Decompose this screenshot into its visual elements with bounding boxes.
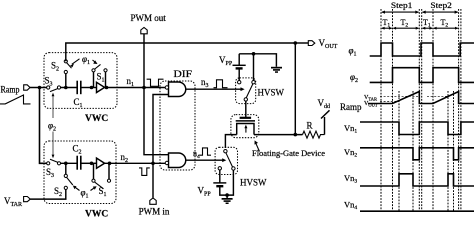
pulse glyph n1 [147,79,164,86]
phi2 control line with arrows [48,93,56,159]
wire V_OUT vertical [294,43,296,135]
wire n2 up to upper gate [153,95,169,164]
wire S2 to V_TAR [30,190,66,200]
AND gate lower (n4) [165,153,186,168]
Ramp input label [1,85,20,95]
pulse glyph n4 [200,148,212,155]
annotation arrow to FG box [255,140,260,151]
svg-text:Floating-Gate Device: Floating-Gate Device [252,148,325,158]
Vn3 waveform label [344,173,357,185]
switch S3 upper [45,76,61,92]
wire n4 output [186,159,223,161]
ramp waveform glyph [0,95,31,104]
PWM out terminal [131,13,167,34]
svg-text:HVSW: HVSW [258,88,285,98]
wire battery to gnd node [220,170,234,195]
phi2 waveform label [350,72,358,84]
VWC upper box [44,53,117,109]
Vn4 waveform label [344,200,357,212]
svg-text:Step2: Step2 [430,0,452,10]
svg-text:Step1: Step1 [391,0,413,10]
resistor R [303,121,325,139]
capacitor C2 [73,144,82,170]
phi1 waveform label [349,46,357,58]
wire ramp down to lower VWC [40,88,49,164]
wire C2 to buffer [81,162,97,164]
capacitor C1 [74,81,83,109]
Vn3 waveform [360,174,474,186]
Vn1 waveform label [344,123,357,135]
node HVSW1 gnd junction [252,52,256,56]
node n2 junction [151,162,155,166]
svg-text:Ramp: Ramp [340,102,362,112]
V_OUT label [319,38,338,50]
op-amp buffer lower [97,158,105,168]
node V_OUT junction [294,41,298,45]
wire FG source to HVSW2 [225,135,236,148]
Step1 label [391,0,413,10]
timing grid minor dashed lines [399,91,454,211]
wire S3 to C2 [61,162,77,164]
switch HVSW2 [218,150,235,171]
node buffer input lower [90,162,94,166]
DIF label [174,69,193,79]
Step1 arrow [381,11,419,14]
node buffer input upper [90,86,94,90]
DIF box [160,81,195,170]
wire n1 down to lower gate [144,88,169,155]
wire Ramp to S3 [30,87,48,89]
switch S1 upper [92,64,107,87]
Vn2 waveform [360,148,474,160]
HVSW lower box [215,147,237,174]
switch HVSW1 [238,81,256,102]
svg-text:VWC: VWC [85,114,108,124]
pulse glyph n2 [139,168,150,176]
switch S2 lower [54,163,73,198]
HVSW upper label [258,88,285,98]
node S2 tap lower [64,162,68,166]
node n4 label [193,149,200,160]
T1 T2 labels row [383,18,449,29]
wire V_OUT stub [295,42,308,44]
wire PWM out down to n1 [143,34,145,88]
Ramp waveform [368,92,474,104]
wire n3 output [186,88,243,90]
Vn1 waveform [360,122,474,135]
HVSW upper box [236,78,256,104]
V_TAR terminal [24,197,31,202]
node buffer output lower [108,162,112,166]
wire S3 to C1 [61,87,77,89]
node S2 tap upper [64,86,68,90]
phi1 waveform [370,43,474,56]
svg-text:R: R [307,121,313,131]
wire junction down to switch [253,54,255,81]
ground lower [222,198,233,204]
Step2 label [430,0,452,10]
node n1 label [127,76,135,88]
svg-text:HVSW: HVSW [240,178,267,188]
V_dd supply [318,98,331,135]
node ramp junction [38,86,42,90]
VWC lower label [85,210,108,220]
Ramp waveform label [340,102,362,112]
wire HVSW1 to floating gate [245,101,247,117]
PWM in terminal [139,198,170,217]
node n2 label [121,152,129,164]
phi1 label lower with arrows [73,186,97,200]
wire down to ground [226,195,228,198]
AND gate upper (n3) [165,82,186,97]
V_OUT level label [364,101,378,108]
wire FG drain to output node [254,134,303,136]
V_TAR label [4,196,22,208]
node HVSW2 gnd junction [225,193,229,197]
op-amp buffer upper [97,82,105,92]
phi2 waveform [370,68,474,83]
V_OUT terminal [308,41,315,46]
wire n1 rail [105,87,166,89]
battery V_PP upper [219,54,246,81]
Floating-Gate Device box [231,115,259,138]
svg-text:PWM out: PWM out [131,13,167,23]
Vn4 waveform [360,210,474,212]
Vn2 waveform label [344,147,357,159]
phi1 label upper with arrows [70,54,98,67]
VWC lower box [44,141,116,204]
VWC upper label [85,114,108,124]
wire n2 rail into gate [105,162,166,164]
wire C1 to buffer [81,87,97,89]
wire battery-ground rail [239,54,276,67]
V_OUT dashed level [380,100,399,102]
arrowhead n4 into HVSW [222,158,226,162]
switch S3 lower [46,159,61,179]
svg-text:PWM in: PWM in [139,207,170,217]
ground upper [271,67,282,73]
svg-text:VWC: VWC [85,210,108,219]
node buffer output upper [105,86,109,90]
timing grid major dashed lines [381,9,461,211]
arrowhead n3 into HVSW [241,87,245,91]
node output junction [294,133,298,137]
HVSW lower label [240,178,267,188]
svg-text:DIF: DIF [174,69,193,79]
switch S2 upper [51,60,72,86]
Step2 arrow [422,11,459,14]
Ramp input terminal [24,85,30,90]
T interval arrows [381,27,459,30]
wire PWM in up to n2 [152,163,154,198]
svg-text:Ramp: Ramp [1,85,20,95]
V_TAR dashed level [380,95,448,97]
wire feedback top rail to V_OUT [66,43,295,61]
node n3 label [201,77,209,89]
battery V_PP lower [198,170,227,198]
node n1 junction [142,86,146,90]
pulse glyph n3 [214,80,228,88]
Floating-Gate Device label [252,148,325,158]
switch S1 lower [92,163,111,198]
floating-gate transistor [236,118,255,135]
V_TAR level label [364,95,377,102]
